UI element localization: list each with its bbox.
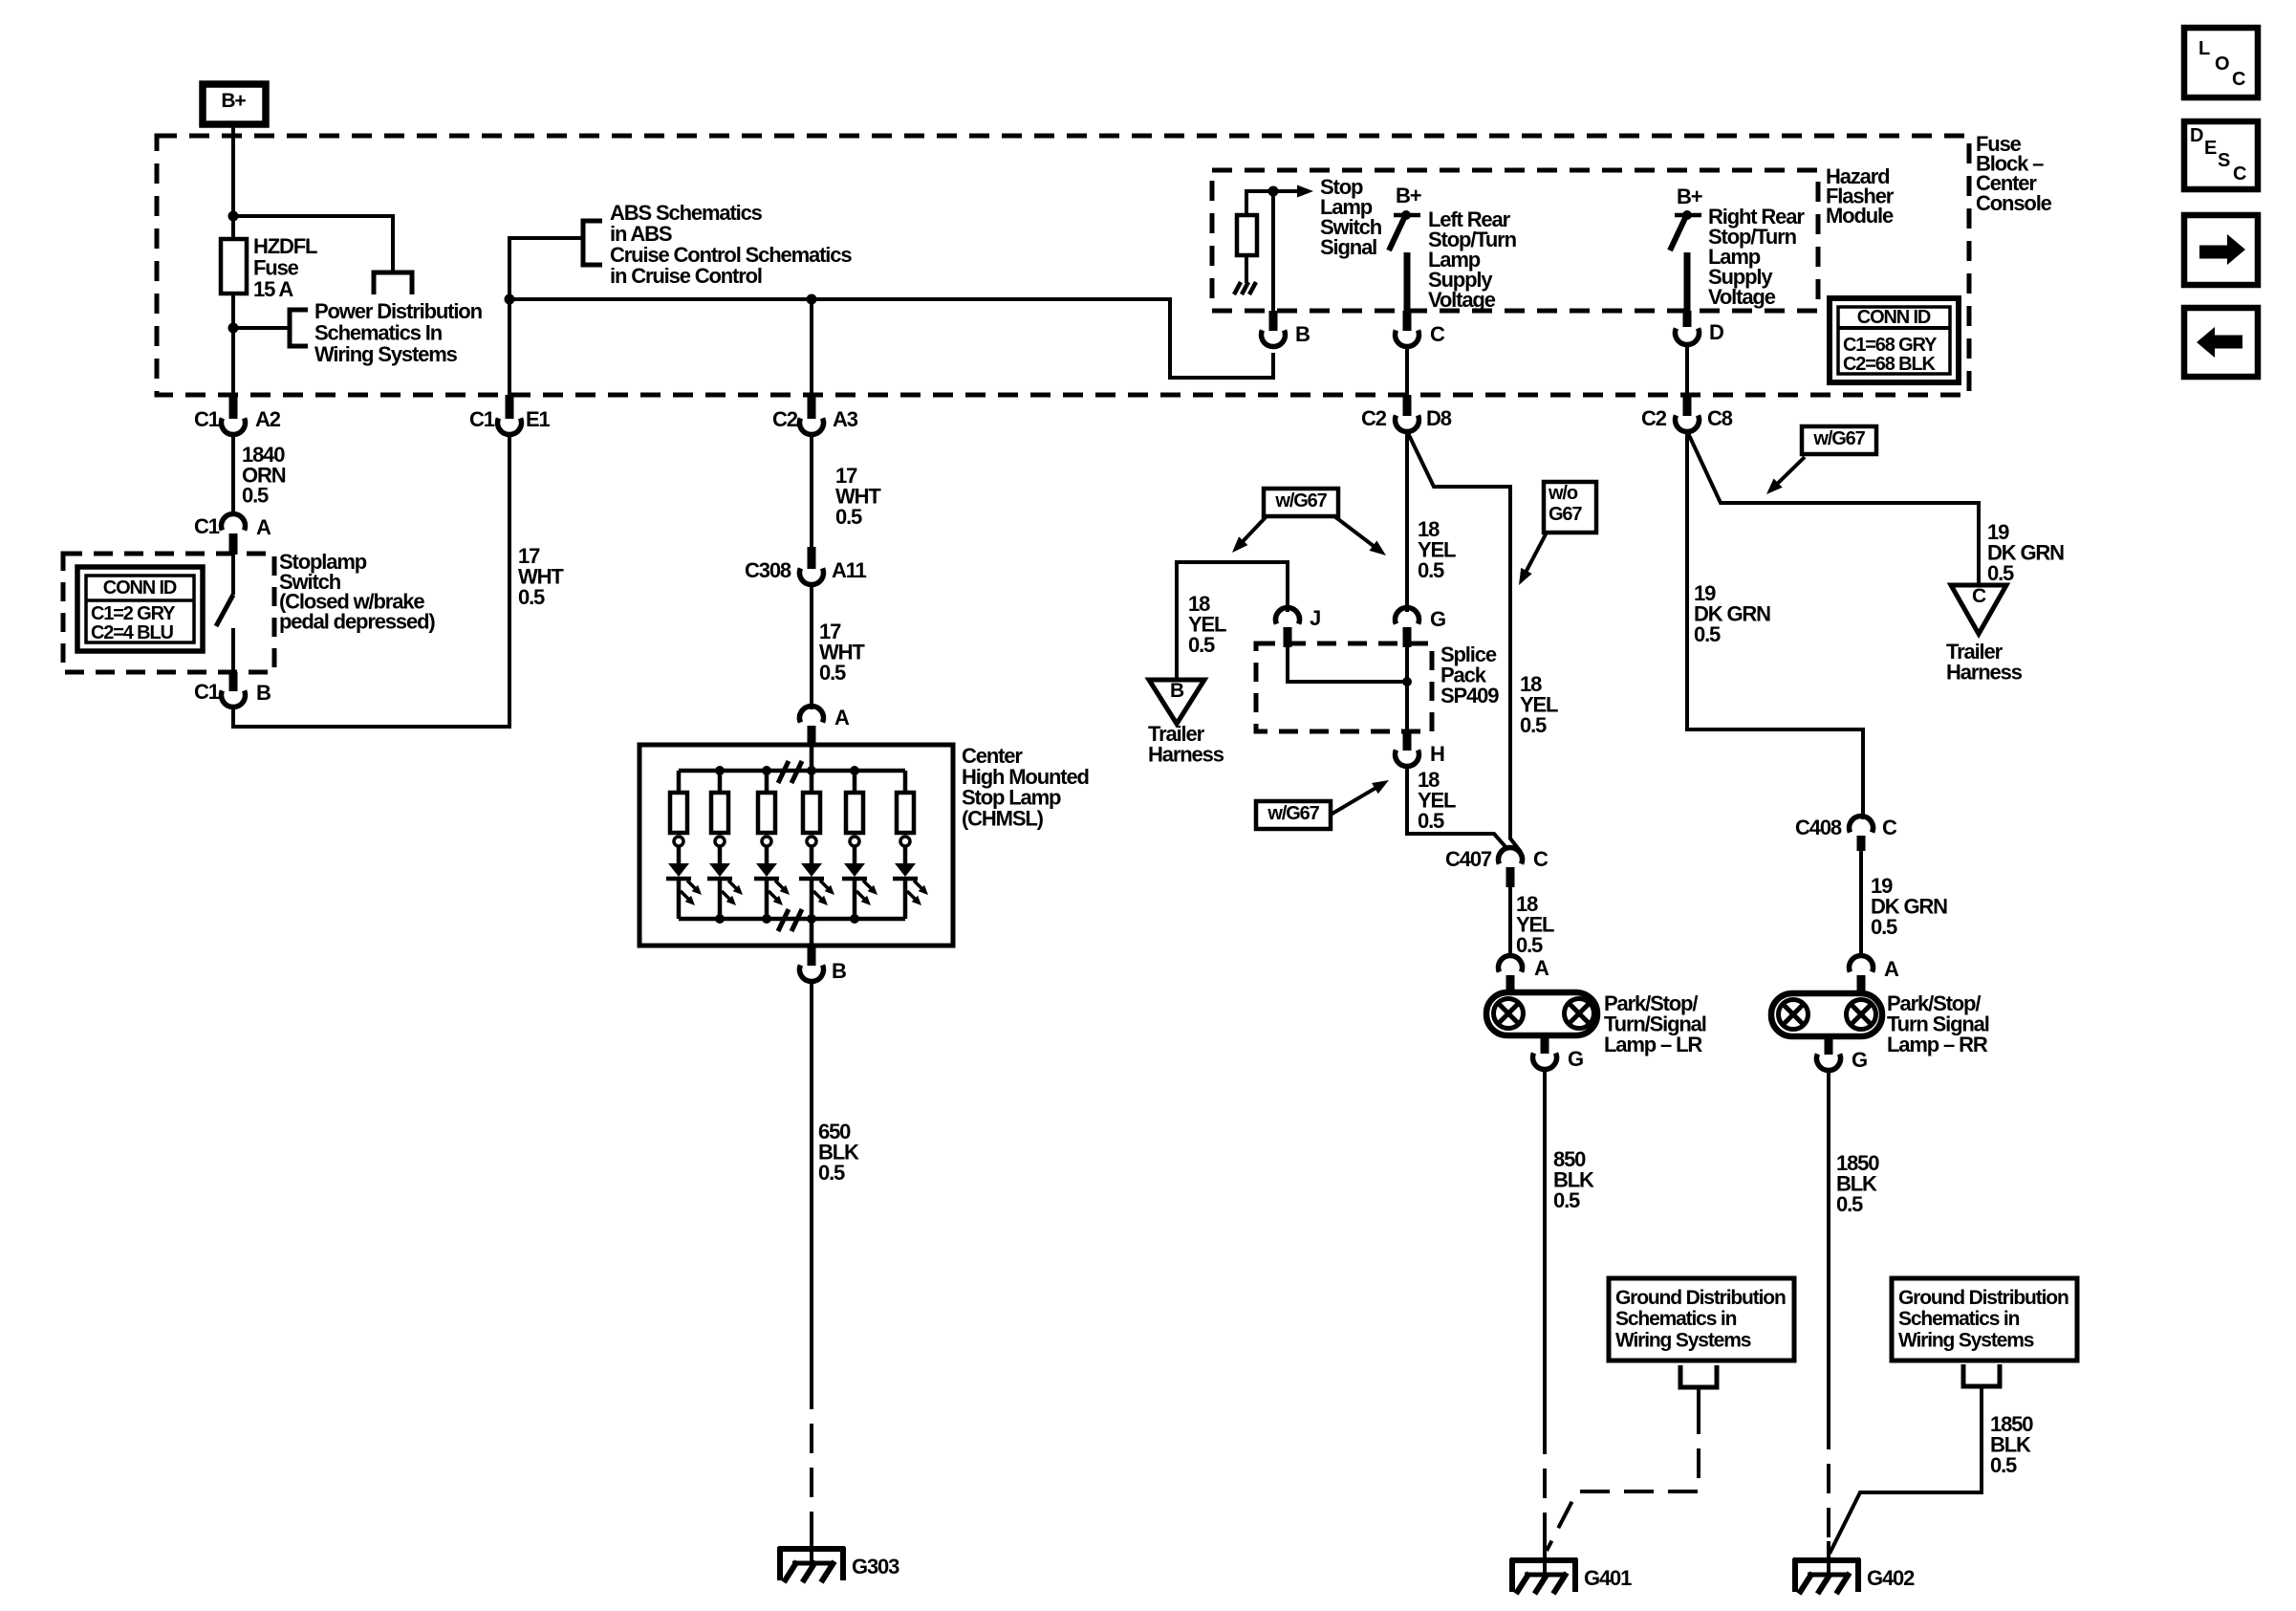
- svg-text:A: A: [1884, 957, 1899, 981]
- svg-text:E: E: [2204, 138, 2217, 159]
- dashed wire ground distribution to G401: [1697, 1387, 1700, 1404]
- switch lever right rear: [1670, 218, 1685, 250]
- ground G402: [1793, 1557, 1860, 1563]
- connector C1 E1: [506, 395, 514, 419]
- connector C1 A: [222, 513, 246, 530]
- svg-text:G401: G401: [1584, 1566, 1632, 1590]
- svg-text:w/G67: w/G67: [1267, 803, 1319, 824]
- svg-text:S: S: [2218, 150, 2230, 171]
- svg-text:D: D: [1709, 320, 1723, 344]
- svg-text:w/G67: w/G67: [1274, 490, 1327, 512]
- svg-text:D: D: [2190, 125, 2203, 146]
- svg-text:Wiring Systems: Wiring Systems: [1898, 1329, 2034, 1351]
- arrow w/G67 right: [1773, 457, 1805, 488]
- svg-text:C: C: [1533, 847, 1549, 871]
- svg-text:C407: C407: [1445, 847, 1492, 871]
- svg-text:Power Distribution: Power Distribution: [314, 299, 483, 323]
- w/G67 callout box upper: [1264, 489, 1338, 516]
- wire pin C to C2 D8: [1405, 347, 1409, 395]
- junction dot on E1 riser: [505, 294, 515, 305]
- splice wires inside SP409: [1288, 647, 1407, 682]
- CHMSL LED branch 3: [765, 771, 769, 793]
- svg-text:0.5: 0.5: [1418, 558, 1444, 582]
- ground distribution schematics box left: [1609, 1278, 1794, 1361]
- LOC icon box: [2184, 28, 2258, 98]
- bracket under right ground distribution box: [1963, 1364, 2000, 1386]
- arrow w/o G67: [1524, 533, 1547, 577]
- CHMSL LED branch 4: [810, 771, 814, 793]
- CHMSL entry wire: [810, 747, 814, 771]
- module internal ground: [1245, 255, 1248, 283]
- svg-text:B+: B+: [1677, 185, 1702, 208]
- junction dot at A3 takeoff: [807, 294, 817, 305]
- wire 18 YEL 0.5 C407 to lamp: [1508, 887, 1512, 958]
- svg-text:0.5: 0.5: [835, 505, 862, 529]
- svg-text:0.5: 0.5: [1871, 915, 1897, 939]
- DESC icon box: [2184, 121, 2258, 189]
- junction dots CHMSL bottom bus: [715, 914, 725, 924]
- arrow w/G67 to main wire: [1334, 516, 1378, 550]
- svg-text:Wiring Systems: Wiring Systems: [314, 342, 458, 366]
- w/G67 callout box lower: [1256, 801, 1331, 829]
- stoplamp switch dashed box: [63, 554, 274, 672]
- svg-text:B: B: [256, 681, 271, 705]
- connector C1 B: [229, 672, 238, 691]
- svg-text:Harness: Harness: [1946, 661, 2023, 685]
- svg-text:0.5: 0.5: [1520, 713, 1547, 737]
- svg-text:L: L: [2199, 38, 2210, 59]
- svg-text:CONN ID: CONN ID: [1857, 307, 1931, 328]
- svg-text:A: A: [834, 706, 850, 729]
- bus wire to hazard flasher stop lamp input: [509, 299, 1273, 378]
- connector G splice pack: [1396, 607, 1419, 623]
- arrow w/G67 to trailer branch: [1239, 516, 1267, 546]
- splice pack SP409 dashed box: [1256, 643, 1432, 731]
- arrow stop lamp switch signal: [1273, 189, 1297, 193]
- svg-text:C1: C1: [194, 407, 220, 431]
- svg-text:in Cruise Control: in Cruise Control: [610, 264, 762, 288]
- connector G lamp RR: [1825, 1036, 1833, 1055]
- park/stop/turn signal lamp RR: [1771, 993, 1882, 1036]
- svg-text:B+: B+: [1396, 184, 1421, 207]
- connector C1 A2: [229, 395, 238, 419]
- svg-text:G: G: [1430, 607, 1445, 631]
- svg-text:w/G67: w/G67: [1812, 428, 1865, 449]
- svg-text:G303: G303: [852, 1555, 899, 1578]
- ground G303: [778, 1546, 845, 1552]
- connector C2 C8: [1683, 395, 1692, 416]
- svg-text:A3: A3: [833, 407, 858, 431]
- CHMSL exit wire: [810, 919, 814, 946]
- park/stop/turn signal lamp LR: [1486, 992, 1597, 1035]
- bracket under left ground distribution box: [1680, 1365, 1717, 1387]
- svg-text:C2=68 BLK: C2=68 BLK: [1843, 354, 1937, 375]
- connector C308 A11: [808, 547, 816, 569]
- svg-text:C308: C308: [745, 558, 791, 582]
- CHMSL LED branch 2: [718, 771, 723, 793]
- wire 18 YEL 0.5 D8 to splice pin G: [1405, 432, 1409, 612]
- svg-text:O: O: [2215, 54, 2229, 75]
- CHMSL LED branch 5: [853, 771, 857, 793]
- wire 850 BLK 0.5 to G401: [1543, 1070, 1547, 1425]
- fuse block - center console dashed box: [157, 136, 1969, 395]
- CHMSL LED branch 1: [677, 771, 682, 793]
- pin B hazard flasher: [1269, 311, 1278, 331]
- svg-text:Schematics in: Schematics in: [1898, 1308, 2020, 1330]
- junction dot below fuse: [228, 323, 239, 334]
- wire 19 DK GRN 0.5 C8 to C408: [1687, 432, 1863, 819]
- forward arrow icon box: [2184, 215, 2258, 285]
- svg-text:Module: Module: [1826, 204, 1894, 228]
- connector C2 D8: [1403, 395, 1412, 416]
- svg-text:0.5: 0.5: [1516, 933, 1543, 957]
- wire 1850 BLK 0.5 to G402: [1827, 1071, 1830, 1420]
- svg-text:Ground Distribution: Ground Distribution: [1615, 1287, 1786, 1309]
- resistor in hazard flasher module: [1237, 215, 1257, 255]
- trailer harness triangle B: [1149, 680, 1204, 724]
- connector A CHMSL: [800, 706, 824, 722]
- CONN ID table stoplamp switch: [77, 567, 203, 651]
- wire C1 B to E1 riser: [233, 436, 509, 727]
- svg-text:C1=2 GRY: C1=2 GRY: [91, 603, 176, 624]
- svg-text:G: G: [1568, 1047, 1583, 1071]
- svg-text:G67: G67: [1549, 504, 1582, 525]
- wire A3 drop inside fuse block: [810, 299, 813, 395]
- svg-text:Schematics in: Schematics in: [1615, 1308, 1737, 1330]
- svg-text:Signal: Signal: [1320, 235, 1376, 259]
- svg-text:w/o: w/o: [1548, 483, 1578, 504]
- svg-text:B: B: [1295, 322, 1310, 346]
- left rear supply stub: [1404, 252, 1411, 311]
- connector C408 C: [1850, 816, 1874, 832]
- svg-text:J: J: [1310, 606, 1320, 630]
- wire stop lamp signal to pin B: [1271, 191, 1275, 311]
- stoplamp switch contacts and lever: [231, 555, 235, 595]
- junction dot stop lamp switch signal: [1268, 186, 1279, 197]
- power distribution down-bracket: [374, 272, 412, 294]
- connector J splice pack: [1276, 607, 1300, 623]
- connector G lamp LR: [1541, 1035, 1549, 1054]
- svg-text:C2: C2: [772, 407, 798, 431]
- svg-text:E1: E1: [526, 407, 551, 431]
- wire fuse to C1 A2: [231, 328, 235, 395]
- wire 1850 BLK 0.5 ground distribution to G402: [1830, 1386, 1982, 1554]
- wire trailer harness B branch: [1177, 562, 1288, 680]
- svg-text:SP409: SP409: [1440, 684, 1499, 708]
- svg-text:0.5: 0.5: [1418, 809, 1444, 833]
- svg-text:A: A: [256, 515, 271, 539]
- svg-text:B: B: [1170, 680, 1184, 702]
- svg-text:Console: Console: [1976, 191, 2052, 215]
- connector C2 A3: [808, 395, 816, 419]
- svg-text:0.5: 0.5: [518, 585, 545, 609]
- wire 18 YEL 0.5 H to C407: [1407, 767, 1507, 849]
- svg-text:0.5: 0.5: [1694, 622, 1721, 646]
- CHMSL LED branch 6: [903, 771, 908, 793]
- svg-text:Wiring Systems: Wiring Systems: [1615, 1329, 1751, 1351]
- svg-text:D8: D8: [1426, 406, 1452, 430]
- w/G67 callout box right: [1802, 426, 1876, 454]
- break marks top bus: [778, 761, 789, 783]
- svg-text:C2=4 BLU: C2=4 BLU: [91, 622, 174, 643]
- wire 17 WHT 0.5 A3 to C308: [810, 435, 813, 550]
- wire w/o G67 branch from D8: [1408, 433, 1521, 852]
- svg-text:A2: A2: [255, 407, 281, 431]
- svg-text:0.5: 0.5: [1987, 561, 2014, 585]
- svg-text:0.5: 0.5: [1553, 1188, 1580, 1212]
- arrow w/G67 lower: [1331, 785, 1380, 815]
- svg-text:C8: C8: [1707, 406, 1733, 430]
- break marks bottom bus: [778, 909, 789, 931]
- svg-text:0.5: 0.5: [819, 661, 846, 685]
- svg-text:C: C: [1430, 322, 1445, 346]
- wire B+ to fuse: [231, 124, 235, 218]
- wire branch to power distribution reference: [233, 216, 393, 272]
- svg-text:0.5: 0.5: [818, 1161, 845, 1185]
- switch lever left rear: [1389, 218, 1404, 250]
- svg-text:C2: C2: [1641, 406, 1667, 430]
- ABS reference right-open bracket: [583, 221, 602, 265]
- svg-text:C1: C1: [194, 514, 220, 538]
- CHMSL box: [639, 745, 953, 946]
- svg-text:C: C: [1882, 816, 1897, 839]
- svg-text:C408: C408: [1795, 816, 1842, 839]
- wire 17 WHT 0.5 C308 to CHMSL: [810, 585, 813, 709]
- CHMSL bottom bus: [679, 917, 905, 922]
- back arrow icon box: [2184, 308, 2258, 377]
- svg-text:Schematics In: Schematics In: [314, 320, 443, 344]
- svg-text:pedal depressed): pedal depressed): [279, 609, 435, 633]
- svg-text:B+: B+: [221, 90, 246, 112]
- ground G401: [1510, 1557, 1577, 1563]
- svg-text:Fuse: Fuse: [253, 255, 299, 279]
- svg-text:Lamp – RR: Lamp – RR: [1887, 1033, 1988, 1056]
- connector A lamp LR: [1499, 955, 1523, 971]
- svg-text:C1=68 GRY: C1=68 GRY: [1843, 335, 1938, 356]
- svg-text:C1: C1: [194, 680, 220, 704]
- wire 1840 ORN 0.5: [231, 435, 235, 516]
- junction dots CHMSL top bus: [715, 766, 725, 775]
- svg-text:C2: C2: [1361, 406, 1387, 430]
- svg-text:Voltage: Voltage: [1708, 285, 1776, 309]
- wire 19 DK GRN 0.5 C408 to lamp RR: [1859, 851, 1863, 958]
- svg-text:0.5: 0.5: [242, 484, 269, 508]
- wire pin D to C2 C8: [1685, 345, 1689, 395]
- CONN ID table fuse block: [1830, 298, 1959, 382]
- svg-text:(CHMSL): (CHMSL): [962, 806, 1044, 830]
- wire E1 riser inside fuse block to ABS reference: [509, 238, 583, 395]
- CHMSL top bus: [679, 769, 905, 773]
- connector B CHMSL: [808, 946, 816, 966]
- hazard flasher module dashed box: [1212, 170, 1818, 311]
- w/o G67 callout box: [1544, 482, 1596, 533]
- svg-text:0.5: 0.5: [1836, 1192, 1863, 1216]
- svg-text:A: A: [1534, 956, 1549, 980]
- svg-text:C: C: [2233, 163, 2246, 185]
- wire 650 BLK 0.5 to G303: [810, 982, 813, 1380]
- svg-text:Ground Distribution: Ground Distribution: [1898, 1287, 2069, 1309]
- connector C407 C: [1499, 847, 1523, 863]
- wire to power distribution schematics bracket: [233, 326, 290, 330]
- wire trailer harness C branch: [1688, 433, 1979, 584]
- pin D hazard flasher: [1683, 311, 1692, 327]
- right rear supply stub: [1684, 252, 1691, 311]
- connector H splice pack: [1403, 731, 1412, 751]
- svg-text:0.5: 0.5: [1990, 1453, 2017, 1477]
- power distribution schematics right-open bracket: [290, 310, 308, 346]
- svg-text:G402: G402: [1867, 1566, 1915, 1590]
- svg-text:Lamp – LR: Lamp – LR: [1604, 1033, 1702, 1056]
- svg-text:B: B: [832, 959, 846, 983]
- svg-text:CONN ID: CONN ID: [103, 577, 177, 599]
- svg-text:C1: C1: [469, 407, 495, 431]
- svg-text:H: H: [1430, 742, 1444, 766]
- svg-text:G: G: [1852, 1048, 1867, 1072]
- connector A lamp RR: [1850, 955, 1874, 971]
- pin C hazard flasher: [1403, 311, 1412, 331]
- svg-text:C: C: [1972, 585, 1986, 607]
- ground distribution schematics box right: [1892, 1278, 2077, 1361]
- svg-text:0.5: 0.5: [1188, 633, 1215, 657]
- junction dot splice SP409: [1402, 677, 1412, 686]
- svg-text:A11: A11: [832, 558, 867, 582]
- svg-text:Voltage: Voltage: [1428, 288, 1496, 312]
- junction dot above fuse: [228, 211, 239, 222]
- B+ battery feed symbol: [203, 84, 266, 124]
- svg-text:C: C: [2232, 69, 2245, 90]
- fuse HZDFL 15A: [221, 239, 247, 294]
- svg-text:HZDFL: HZDFL: [253, 234, 317, 258]
- svg-text:15 A: 15 A: [253, 277, 293, 301]
- svg-text:Harness: Harness: [1148, 743, 1224, 767]
- trailer harness triangle C: [1951, 585, 2006, 634]
